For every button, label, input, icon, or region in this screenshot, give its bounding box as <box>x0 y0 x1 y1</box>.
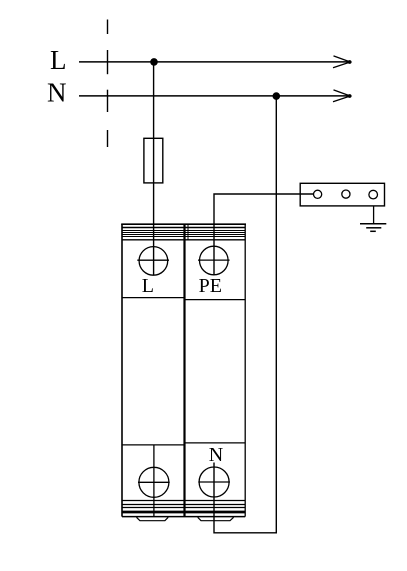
node N label <box>47 78 67 108</box>
junction dot on N <box>273 92 281 100</box>
wire N: from N junction down, across bottom, up into SPD terminal N <box>214 97 276 533</box>
fuse F1 <box>144 138 163 183</box>
terminal N (screw) <box>198 467 230 497</box>
terminal PE (screw) <box>198 246 230 275</box>
terminal L (screw) <box>137 247 169 276</box>
wire from L junction down through fuse to SPD terminal L <box>153 62 155 275</box>
terminal N label <box>209 444 223 466</box>
svg-text:N: N <box>209 444 223 466</box>
SPD top terminal box bottoms <box>122 298 245 300</box>
junction dot on L <box>150 58 158 66</box>
wire L line <box>79 61 349 63</box>
earth terminal block <box>300 183 384 206</box>
wire PE: from earth terminal block left to SPD terminal PE <box>214 194 314 275</box>
arrow L <box>333 56 352 68</box>
svg-text:N: N <box>47 78 67 108</box>
ground <box>360 224 386 232</box>
SPD U1 case: outer edges <box>121 224 246 517</box>
SPD DIN foot left <box>137 517 169 520</box>
SPD bottom terminal box tops <box>122 443 245 445</box>
svg-text:PE: PE <box>199 275 222 297</box>
arrow N <box>333 90 352 102</box>
terminal L label <box>142 275 154 297</box>
SPD module divider <box>183 224 185 517</box>
wire N line <box>79 95 349 97</box>
svg-text:L: L <box>50 45 67 75</box>
SPD bottom hatch <box>122 501 245 517</box>
svg-text:L: L <box>142 275 154 297</box>
SPD top terminal box line <box>122 239 245 241</box>
terminal PE label <box>199 275 222 297</box>
node L label <box>50 45 67 75</box>
wire to ground <box>373 206 375 223</box>
SPD DIN foot right <box>198 517 234 520</box>
SPD top hatch <box>122 224 245 240</box>
terminal bottom-left (screw) <box>138 445 170 517</box>
dashed boundary line <box>107 20 109 148</box>
